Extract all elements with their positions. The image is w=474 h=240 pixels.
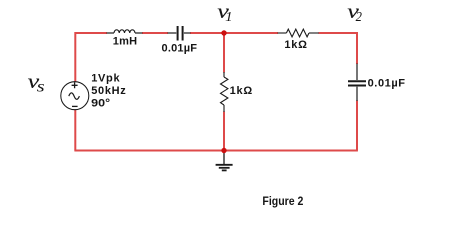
svg-text:1mH: 1mH: [113, 36, 137, 48]
svg-text:90°: 90°: [91, 97, 110, 109]
svg-text:0.01µF: 0.01µF: [162, 43, 198, 55]
node label v2: [347, 0, 359, 23]
inductor L1 1mH: [107, 30, 143, 33]
svg-text:1Vpk: 1Vpk: [91, 72, 120, 84]
wire resistor R1 to node v2 corner: [319, 33, 358, 64]
wire capacitor C2 to bottom rail: [356, 101, 358, 151]
svg-text:50kHz: 50kHz: [91, 85, 126, 97]
svg-text:0.01µF: 0.01µF: [368, 78, 406, 90]
node label v1: [217, 0, 229, 23]
wire source top to inductor L1: [75, 33, 107, 82]
bottom wire rail: [74, 150, 358, 152]
capacitor C1 0.01uF: [168, 26, 191, 41]
voltage source VS circle: [61, 82, 89, 110]
svg-text:Figure 2: Figure 2: [262, 194, 303, 208]
node v1 junction dot: [221, 30, 226, 35]
svg-text:1kΩ: 1kΩ: [284, 39, 307, 51]
svg-text:1: 1: [225, 10, 232, 25]
wire inductor L1 to capacitor C1: [142, 32, 168, 34]
capacitor C2 0.01uF (shunt): [348, 64, 366, 102]
node label vs: [28, 70, 40, 93]
svg-text:s: s: [37, 78, 45, 95]
svg-text:1kΩ: 1kΩ: [230, 85, 253, 97]
bottom junction dot: [221, 148, 226, 153]
ground: [216, 151, 233, 170]
wire node v1 to resistor R1: [224, 32, 278, 34]
wire node v1 down to resistor R2: [223, 33, 225, 73]
wire resistor R2 to bottom rail: [223, 112, 225, 151]
wire source bottom to bottom rail: [74, 110, 76, 151]
resistor R2 1kOhm (shunt): [221, 72, 228, 112]
wire capacitor C1 to node v1: [190, 32, 224, 34]
resistor R1 1kOhm (series): [278, 29, 319, 37]
svg-text:2: 2: [356, 9, 363, 24]
